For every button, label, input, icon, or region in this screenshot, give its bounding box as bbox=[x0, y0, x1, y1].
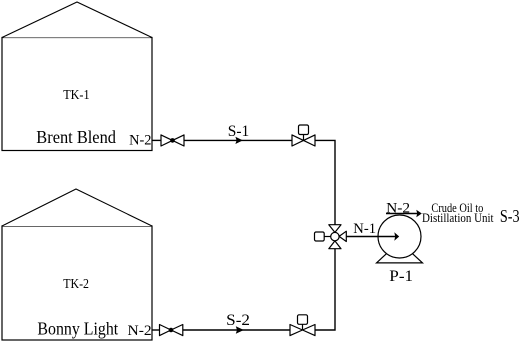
valve (check valve) on S-2 bbox=[160, 325, 183, 336]
wire TK-2 outlet to valve bbox=[152, 329, 160, 331]
svg-text:S-1: S-1 bbox=[228, 123, 250, 140]
pump P-1 pedestal bbox=[377, 250, 423, 263]
wire three-way valve down to S-2 corner bbox=[315, 249, 335, 330]
svg-text:Bonny Light: Bonny Light bbox=[37, 318, 118, 338]
tank TK-1 body bbox=[2, 38, 152, 151]
tank TK-1 roof bbox=[2, 2, 152, 38]
svg-text:S-3: S-3 bbox=[500, 206, 520, 226]
control valve on S-2 bbox=[290, 315, 315, 336]
arrow N-1 bbox=[394, 232, 399, 240]
svg-text:TK-1: TK-1 bbox=[63, 88, 89, 103]
wire S-2 bbox=[183, 329, 290, 331]
wire N-1 into pump bbox=[346, 236, 396, 238]
wire TK-1 outlet to valve bbox=[152, 139, 161, 141]
svg-text:N-2: N-2 bbox=[128, 323, 152, 339]
three-way valve bbox=[315, 225, 347, 249]
svg-text:Distillation Unit: Distillation Unit bbox=[422, 211, 494, 225]
svg-text:S-2: S-2 bbox=[226, 312, 250, 329]
control valve on S-1 bbox=[292, 125, 315, 146]
pump P-1 casing bbox=[378, 215, 421, 258]
svg-text:N-2: N-2 bbox=[386, 201, 410, 217]
tank TK-2 roof bbox=[2, 189, 152, 226]
valve (check valve) on S-1 bbox=[161, 135, 184, 146]
svg-text:Brent Blend: Brent Blend bbox=[36, 127, 116, 147]
svg-text:TK-2: TK-2 bbox=[63, 277, 89, 292]
tank TK-2 body bbox=[2, 226, 152, 340]
wire S-1 to drop bbox=[315, 140, 335, 224]
arrow N-2 outlet bbox=[416, 210, 422, 218]
arrow S-1 bbox=[235, 137, 242, 144]
svg-text:N-1: N-1 bbox=[353, 221, 376, 237]
wire N-2 pump outlet bbox=[386, 213, 418, 215]
wire S-1 bbox=[184, 139, 292, 141]
svg-text:N-2: N-2 bbox=[129, 133, 151, 149]
arrow S-2 bbox=[236, 326, 244, 333]
svg-text:P-1: P-1 bbox=[389, 268, 413, 285]
